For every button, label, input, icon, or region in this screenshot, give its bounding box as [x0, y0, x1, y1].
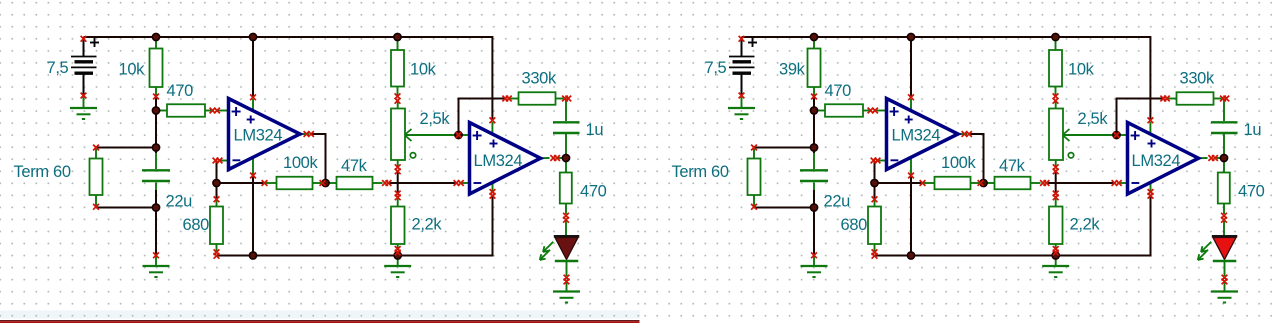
svg-text:39k: 39k	[779, 61, 806, 79]
svg-text:10k: 10k	[119, 61, 146, 79]
